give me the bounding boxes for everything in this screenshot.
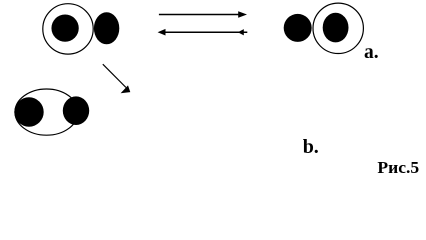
right molecule: inner atom (filled)	[323, 13, 349, 43]
reverse arrow (bottom, pointing left)	[163, 31, 247, 33]
bottom molecule: enclosing ellipse	[15, 89, 78, 135]
right molecule: left atom (filled)	[284, 14, 312, 42]
forward arrow (top, pointing right)	[159, 14, 240, 16]
svg-text:Рис.5: Рис.5	[377, 158, 419, 176]
left molecule: outer shell circle	[43, 4, 93, 54]
diagonal arrow (down-right)	[103, 64, 126, 87]
left molecule: inner atom (filled)	[51, 14, 78, 41]
left molecule: right atom (filled)	[94, 12, 119, 44]
bottom molecule: left atom (filled)	[14, 97, 43, 126]
svg-text:b.: b.	[303, 136, 319, 158]
right molecule: outer shell circle	[313, 3, 363, 53]
svg-text:a.: a.	[364, 42, 379, 63]
bottom molecule: right atom (filled)	[63, 96, 89, 125]
diagonal arrowhead	[121, 85, 131, 93]
stray second arrowhead on reverse arrow	[238, 29, 244, 35]
reverse arrowhead (left tip)	[158, 29, 166, 36]
forward arrowhead	[238, 11, 247, 18]
